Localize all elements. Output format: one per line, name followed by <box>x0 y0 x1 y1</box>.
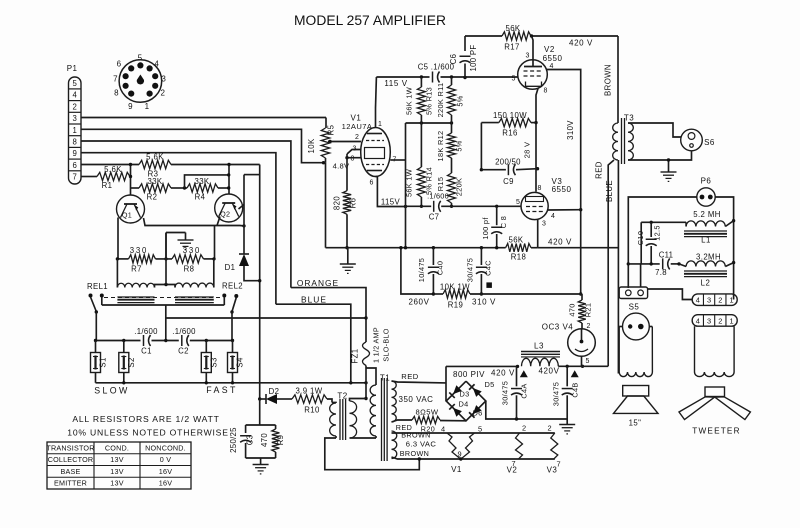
svg-text:REL1: REL1 <box>87 282 108 291</box>
capacitor C3 250/25 and resistor R9 470 <box>229 399 285 474</box>
wire SLOW/FAST bottom row to fuse junction <box>96 381 368 384</box>
svg-text:16V: 16V <box>159 467 172 476</box>
transistor Q2 <box>215 194 243 222</box>
svg-text:3: 3 <box>526 53 530 60</box>
svg-text:C4B: C4B <box>571 382 580 397</box>
wire V1 plate pin1 to 115V row <box>375 77 378 128</box>
svg-text:ALL RESISTORS ARE 1/2 WATT: ALL RESISTORS ARE 1/2 WATT <box>72 414 219 424</box>
label 310 V <box>472 298 496 307</box>
svg-text:L1: L1 <box>701 236 711 245</box>
svg-text:C3: C3 <box>246 435 255 446</box>
svg-text:.1/600: .1/600 <box>172 327 196 336</box>
wire 420V row B <box>538 365 608 378</box>
svg-text:350 VAC: 350 VAC <box>399 395 434 404</box>
svg-text:30/475: 30/475 <box>552 382 561 406</box>
wire P1 pin6 row through R3 to Q2 base <box>81 163 260 194</box>
svg-text:BLUE: BLUE <box>301 295 327 305</box>
svg-text:5: 5 <box>73 79 78 88</box>
svg-text:1: 1 <box>73 126 77 135</box>
svg-text:V1: V1 <box>451 465 462 474</box>
svg-text:L3: L3 <box>534 342 544 351</box>
svg-text:3.2MH: 3.2MH <box>696 253 721 262</box>
svg-text:3.9 1W: 3.9 1W <box>295 387 322 396</box>
svg-text:COLLECTOR: COLLECTOR <box>48 455 94 464</box>
svg-text:13V: 13V <box>110 455 123 464</box>
wire B+ row left section <box>326 246 499 249</box>
svg-text:TRANSISTOR: TRANSISTOR <box>46 443 94 452</box>
relay REL1 coil and core <box>87 259 166 303</box>
label 115 V upper <box>384 79 407 88</box>
wire P1 pin9 to BLUE drop <box>81 153 276 305</box>
svg-text:R21: R21 <box>584 303 593 317</box>
wire D1 column to D2 node <box>258 397 261 400</box>
speaker 15in bell <box>619 327 652 377</box>
socket S6 <box>681 129 715 151</box>
capacitor C9 200/50 <box>481 158 537 186</box>
wire T3 secondary to S6 <box>628 123 692 172</box>
inductor L1 5.2MH <box>641 210 733 245</box>
svg-text:S3: S3 <box>209 357 218 367</box>
svg-text:2: 2 <box>718 296 722 305</box>
wire BLUE T3 to speaker plug S5 <box>605 160 619 373</box>
svg-text:MODEL 257 AMPLIFIER: MODEL 257 AMPLIFIER <box>294 13 446 28</box>
resistor R14 56K 1W 5% <box>405 167 434 208</box>
svg-text:8: 8 <box>114 89 119 98</box>
svg-text:8: 8 <box>351 156 355 163</box>
svg-text:FAST: FAST <box>206 385 238 395</box>
inductor L2 3.2MH <box>679 253 734 288</box>
svg-text:16V: 16V <box>159 479 172 488</box>
svg-text:4: 4 <box>154 60 159 69</box>
relay REL1 contact <box>89 294 104 341</box>
svg-text:30/475: 30/475 <box>501 381 510 405</box>
svg-text:BLUE: BLUE <box>605 180 614 202</box>
voltage table <box>46 442 191 489</box>
svg-text:.1/600: .1/600 <box>427 192 449 201</box>
svg-text:D4: D4 <box>458 400 468 409</box>
svg-text:5: 5 <box>512 76 516 83</box>
relay REL2 contact <box>222 294 238 341</box>
svg-text:BROWN: BROWN <box>400 449 430 458</box>
resistor R12 18K 5% <box>436 123 464 173</box>
svg-text:28 V: 28 V <box>523 141 532 158</box>
transformer T2 <box>330 392 376 441</box>
svg-text:Q1: Q1 <box>122 211 132 220</box>
connector P1 <box>67 64 81 184</box>
svg-text:1: 1 <box>145 102 150 111</box>
svg-text:C9: C9 <box>503 177 514 186</box>
terminal strip 1 (4321) <box>648 289 738 305</box>
wire R16 left column <box>480 123 483 172</box>
relay REL2 coil and core <box>164 233 243 303</box>
wire fuse to T1/T2 <box>350 368 377 401</box>
svg-text:T3: T3 <box>624 114 634 123</box>
resistor R2 33K <box>131 177 172 202</box>
svg-text:V3: V3 <box>547 466 558 475</box>
svg-text:C2: C2 <box>178 347 189 356</box>
wire P6 left lead down to jack <box>627 197 697 288</box>
svg-text:470: 470 <box>260 433 269 447</box>
svg-text:420 V: 420 V <box>548 238 572 247</box>
svg-text:R4: R4 <box>195 193 206 202</box>
tube V1 12AU7A <box>342 114 397 187</box>
svg-text:C7: C7 <box>429 213 440 222</box>
svg-text:4: 4 <box>73 91 78 100</box>
wire 260V box left edge <box>399 246 433 294</box>
svg-text:L2: L2 <box>701 279 711 288</box>
tube V4 OC3 regulator <box>542 323 596 368</box>
svg-text:220K R11: 220K R11 <box>436 83 445 118</box>
svg-text:C6: C6 <box>449 54 458 65</box>
ground under T3 <box>661 172 677 181</box>
tube V2 6550 <box>512 45 563 95</box>
svg-text:P6: P6 <box>701 177 712 186</box>
switch S2 <box>119 341 136 383</box>
svg-text:4: 4 <box>696 296 700 305</box>
svg-text:15": 15" <box>629 419 642 428</box>
svg-text:COND.: COND. <box>105 443 129 452</box>
svg-text:260V: 260V <box>408 298 429 307</box>
svg-text:1: 1 <box>378 121 382 128</box>
svg-text:Q2: Q2 <box>220 210 230 219</box>
capacitor C5 .1/600 <box>418 63 455 83</box>
svg-text:420V: 420V <box>538 367 559 376</box>
wire RED T3 to 420V row B <box>595 160 615 366</box>
dashed mechanical link <box>104 297 222 299</box>
svg-text:10/475: 10/475 <box>417 258 426 282</box>
svg-text:RED: RED <box>595 161 604 179</box>
wire Q1 base column <box>129 163 132 195</box>
svg-text:30/475: 30/475 <box>466 258 475 282</box>
svg-text:150 10W: 150 10W <box>493 111 527 120</box>
wire T2 bottom loop to heater winding <box>325 438 420 470</box>
resistor R13 56K 1W 5% <box>405 77 434 167</box>
svg-text:C4A: C4A <box>520 383 529 398</box>
svg-text:8: 8 <box>544 88 548 95</box>
svg-text:R18: R18 <box>511 253 527 262</box>
marker square near C4C <box>486 282 492 288</box>
svg-text:R1: R1 <box>102 181 113 190</box>
resistor R10 3.9 1W <box>292 387 332 415</box>
wire Q1 emitter row to Q2 and D1 column <box>144 217 246 259</box>
capacitor C4A 30/475 <box>501 366 529 419</box>
svg-text:RED: RED <box>401 372 419 381</box>
note all resistors <box>67 414 229 438</box>
svg-text:5%: 5% <box>455 140 464 151</box>
title MODEL 257 AMPLIFIER <box>294 13 446 28</box>
svg-text:1: 1 <box>729 296 733 305</box>
svg-text:200/50: 200/50 <box>495 158 521 167</box>
diode D2 <box>260 387 292 404</box>
svg-text:420 V: 420 V <box>569 39 593 48</box>
svg-text:220K: 220K <box>455 178 464 196</box>
svg-text:NONCOND.: NONCOND. <box>145 443 186 452</box>
svg-text:3: 3 <box>542 221 546 228</box>
bridge rectifier 800 PIV D3 D4 D5 D6 <box>446 370 494 421</box>
svg-text:8: 8 <box>73 138 77 147</box>
transistor Q1 <box>117 195 145 223</box>
capacitor C1 .1/600 <box>134 327 158 356</box>
svg-text:115V: 115V <box>381 198 401 207</box>
svg-text:FZ1: FZ1 <box>351 348 360 363</box>
svg-text:S6: S6 <box>704 138 715 147</box>
ground at R6 bottom row <box>340 248 356 274</box>
svg-text:2: 2 <box>73 102 77 111</box>
svg-text:C40: C40 <box>436 261 445 275</box>
svg-text:BASE: BASE <box>61 467 81 476</box>
svg-text:5%: 5% <box>456 95 465 106</box>
capacitor C8 100pf <box>481 206 508 247</box>
svg-text:56K: 56K <box>505 24 520 33</box>
wire 420V row A <box>446 365 528 378</box>
svg-text:12.5: 12.5 <box>653 225 662 241</box>
resistor R4 33K <box>171 173 230 201</box>
svg-text:4: 4 <box>551 213 555 220</box>
svg-text:100 pf: 100 pf <box>481 217 490 240</box>
resistor R3 5.6K <box>139 153 171 179</box>
svg-text:5.2 MH: 5.2 MH <box>693 210 721 219</box>
wire 4.8V node down to 420V row <box>325 163 327 248</box>
svg-text:9: 9 <box>457 450 461 459</box>
tube V3 6550 <box>516 177 571 228</box>
svg-text:C 8: C 8 <box>499 216 508 228</box>
svg-text:2: 2 <box>160 89 165 98</box>
resistor R16 150 10W <box>481 111 536 138</box>
svg-text:C1: C1 <box>141 347 152 356</box>
capacitor C4B 30/475 <box>552 366 580 419</box>
resistor R19 10K 1W <box>433 283 582 310</box>
svg-text:5% R13: 5% R13 <box>425 87 434 115</box>
resistor R1 5.6K <box>97 165 130 190</box>
transformer T1 <box>370 374 397 462</box>
svg-text:R2: R2 <box>147 193 158 202</box>
capacitor C4C 30/475 <box>466 248 493 296</box>
svg-text:9: 9 <box>128 102 133 111</box>
svg-text:.1/600: .1/600 <box>134 327 158 336</box>
wire R5 to V1 pin 2 <box>328 134 361 143</box>
svg-text:R15: R15 <box>436 177 445 191</box>
svg-text:6550: 6550 <box>543 54 563 63</box>
wire relay common row <box>102 305 225 341</box>
heater V3 pins 2 7 <box>547 424 561 475</box>
svg-text:D5: D5 <box>484 380 494 389</box>
svg-text:4: 4 <box>441 425 445 434</box>
speaker 15in magnet and cone <box>614 386 659 428</box>
capacitor C40 10/475 <box>417 248 445 296</box>
svg-text:3: 3 <box>707 316 711 325</box>
wire V2 pin8 column down to V3 <box>523 89 540 192</box>
svg-text:1 1/2 AMP: 1 1/2 AMP <box>372 327 381 363</box>
wire P1 pin7 to R1 <box>81 176 97 178</box>
wire R11 bottom row to bracket <box>406 121 454 124</box>
svg-text:13V: 13V <box>110 467 123 476</box>
svg-text:5.6K: 5.6K <box>104 165 122 174</box>
svg-text:S4: S4 <box>236 357 245 368</box>
wire Q2 collector to D2 column <box>239 165 260 400</box>
svg-text:BROWN: BROWN <box>604 64 613 96</box>
capacitor C10 12.5 <box>636 222 662 264</box>
svg-text:10% UNLESS NOTED OTHERWISE: 10% UNLESS NOTED OTHERWISE <box>67 428 229 438</box>
svg-text:C4C: C4C <box>484 260 493 276</box>
ground at Q1/Q2 emitters <box>166 233 194 259</box>
capacitor C2 .1/600 <box>172 327 196 356</box>
label 260V <box>408 298 429 307</box>
svg-text:R9: R9 <box>276 435 285 446</box>
svg-text:56K 1W: 56K 1W <box>405 169 414 197</box>
capacitor C6 100PF <box>449 36 478 78</box>
wire C1/C2 row <box>94 339 234 342</box>
svg-text:P1: P1 <box>67 64 78 73</box>
svg-text:2: 2 <box>355 134 359 141</box>
tweeter bell <box>695 326 735 376</box>
wire BLUE <box>276 295 351 383</box>
svg-text:330: 330 <box>183 246 201 255</box>
resistor R5 10K <box>307 118 350 171</box>
svg-text:S2: S2 <box>127 357 136 367</box>
svg-text:R7: R7 <box>131 265 142 274</box>
svg-text:TWEETER: TWEETER <box>692 427 740 436</box>
wire 6.3VAC heater rows <box>392 431 555 461</box>
wire V1 pin7 to bracket column <box>390 123 405 248</box>
heater V2 pins 2 7 <box>507 424 526 475</box>
wire V3 pin4 <box>548 209 581 211</box>
wire relay row to fuse <box>166 316 368 319</box>
wire R17 to V2 grid pin3 <box>532 36 534 67</box>
svg-text:R8: R8 <box>184 265 195 274</box>
svg-text:7: 7 <box>73 173 77 182</box>
svg-text:D1: D1 <box>225 263 236 272</box>
wire P6 right lead down right column <box>715 197 735 300</box>
switch S3 <box>201 341 218 383</box>
wire P1 pin3 to R5 (grid bus) <box>81 117 326 119</box>
svg-text:SLO-BLO: SLO-BLO <box>382 328 391 361</box>
svg-text:BROWN: BROWN <box>401 431 431 440</box>
wire V3 pin3 to R18 row <box>537 220 539 248</box>
resistor R15 220K <box>436 173 464 208</box>
wire P1 pin1 drop to 4.8V node <box>81 129 324 162</box>
svg-text:6: 6 <box>73 161 77 170</box>
resistor R21 470 <box>568 294 593 329</box>
svg-text:R10: R10 <box>304 406 320 415</box>
diode D1 <box>225 226 262 283</box>
plug P6 <box>697 177 715 207</box>
svg-text:D6: D6 <box>472 409 482 418</box>
fuse FZ1 1 1/2 AMP SLO-BLO <box>351 327 391 383</box>
svg-text:3: 3 <box>73 114 77 123</box>
ground at cap bottoms <box>559 419 575 434</box>
svg-text:5: 5 <box>586 358 590 365</box>
speaker jack 2-hole <box>619 264 647 299</box>
svg-text:2: 2 <box>587 323 591 330</box>
svg-text:56K 1W: 56K 1W <box>405 87 414 115</box>
wire P1 pin8 to ORANGE drop <box>81 141 291 288</box>
resistor R7 330 <box>116 246 168 274</box>
resistor R8 330 <box>156 246 216 274</box>
heater V1 pins 4 5 9 <box>441 425 482 475</box>
svg-text:R5: R5 <box>327 124 336 135</box>
svg-text:3: 3 <box>707 296 711 305</box>
svg-text:REL2: REL2 <box>222 282 243 291</box>
label SLOW <box>94 386 130 396</box>
svg-text:420 V: 420 V <box>491 369 515 378</box>
svg-text:5: 5 <box>138 53 143 62</box>
svg-text:5: 5 <box>516 199 520 206</box>
svg-text:100 PF: 100 PF <box>469 45 478 72</box>
svg-text:6550: 6550 <box>552 185 572 194</box>
svg-text:5.6K: 5.6K <box>146 153 164 162</box>
capacitor C7 .1/600 <box>427 192 449 222</box>
terminal strip 2 (4321) <box>692 315 737 327</box>
resistor R11 220K 5% <box>436 77 465 123</box>
resistor R20 8ohm 5W RED lead <box>392 408 467 434</box>
tweeter horn <box>679 387 750 436</box>
svg-text:4: 4 <box>696 316 700 325</box>
svg-text:250/25: 250/25 <box>229 427 238 453</box>
wire C11 row <box>628 222 680 265</box>
svg-text:V2: V2 <box>544 45 555 54</box>
svg-text:820: 820 <box>333 196 342 210</box>
tube socket (9-pin) top view <box>113 53 166 111</box>
svg-text:33K: 33K <box>194 177 209 186</box>
svg-text:5: 5 <box>478 425 482 434</box>
svg-text:ORANGE: ORANGE <box>297 278 339 288</box>
wire V2 pin4 310V column <box>547 70 582 296</box>
svg-text:310V: 310V <box>566 120 575 140</box>
label 420 V top <box>569 39 593 48</box>
svg-text:V2: V2 <box>507 466 518 475</box>
svg-text:S1: S1 <box>99 357 108 367</box>
svg-text:8: 8 <box>538 185 542 192</box>
svg-text:R19: R19 <box>448 301 464 310</box>
wire 420V row (B+) to BLUE column <box>538 247 619 249</box>
svg-text:33K: 33K <box>147 177 162 186</box>
label FAST <box>206 385 238 395</box>
resistor R6 820 <box>333 158 358 250</box>
svg-text:2: 2 <box>718 316 722 325</box>
svg-text:115 V: 115 V <box>384 79 407 88</box>
svg-text:310 V: 310 V <box>472 298 496 307</box>
svg-text:EMITTER: EMITTER <box>54 479 87 488</box>
svg-text:C11: C11 <box>659 251 674 260</box>
svg-text:2: 2 <box>522 424 526 433</box>
label 420 V mid <box>548 238 572 247</box>
svg-text:6: 6 <box>117 60 122 69</box>
switch S1 <box>91 341 108 383</box>
svg-text:1: 1 <box>729 316 733 325</box>
transformer T3 <box>613 114 635 165</box>
svg-text:0 V: 0 V <box>160 455 171 464</box>
wire BROWN 420V to T3 <box>604 36 619 123</box>
svg-text:OC3 V4: OC3 V4 <box>542 323 574 332</box>
svg-text:10K: 10K <box>307 138 316 153</box>
wire Q1 collector to R7 <box>117 218 119 259</box>
svg-text:R17: R17 <box>504 43 520 52</box>
wire RED lead to bridge left corner <box>445 366 447 401</box>
svg-text:6.3 VAC: 6.3 VAC <box>406 440 437 449</box>
svg-text:13V: 13V <box>110 479 123 488</box>
choke L3 <box>521 342 560 367</box>
svg-text:10K 1W: 10K 1W <box>440 283 470 292</box>
wire V1 pin3 pin8 to R6 column <box>345 150 361 160</box>
svg-text:3: 3 <box>161 74 166 83</box>
wire V1 pin6 bracket 115V <box>376 177 408 209</box>
svg-text:2: 2 <box>547 424 551 433</box>
wire 115V row with C5 <box>376 75 518 79</box>
resistor R18 56K <box>497 236 538 262</box>
svg-text:R16: R16 <box>502 129 518 138</box>
svg-text:6: 6 <box>370 180 374 187</box>
wire coupling row with C7 <box>406 205 522 208</box>
